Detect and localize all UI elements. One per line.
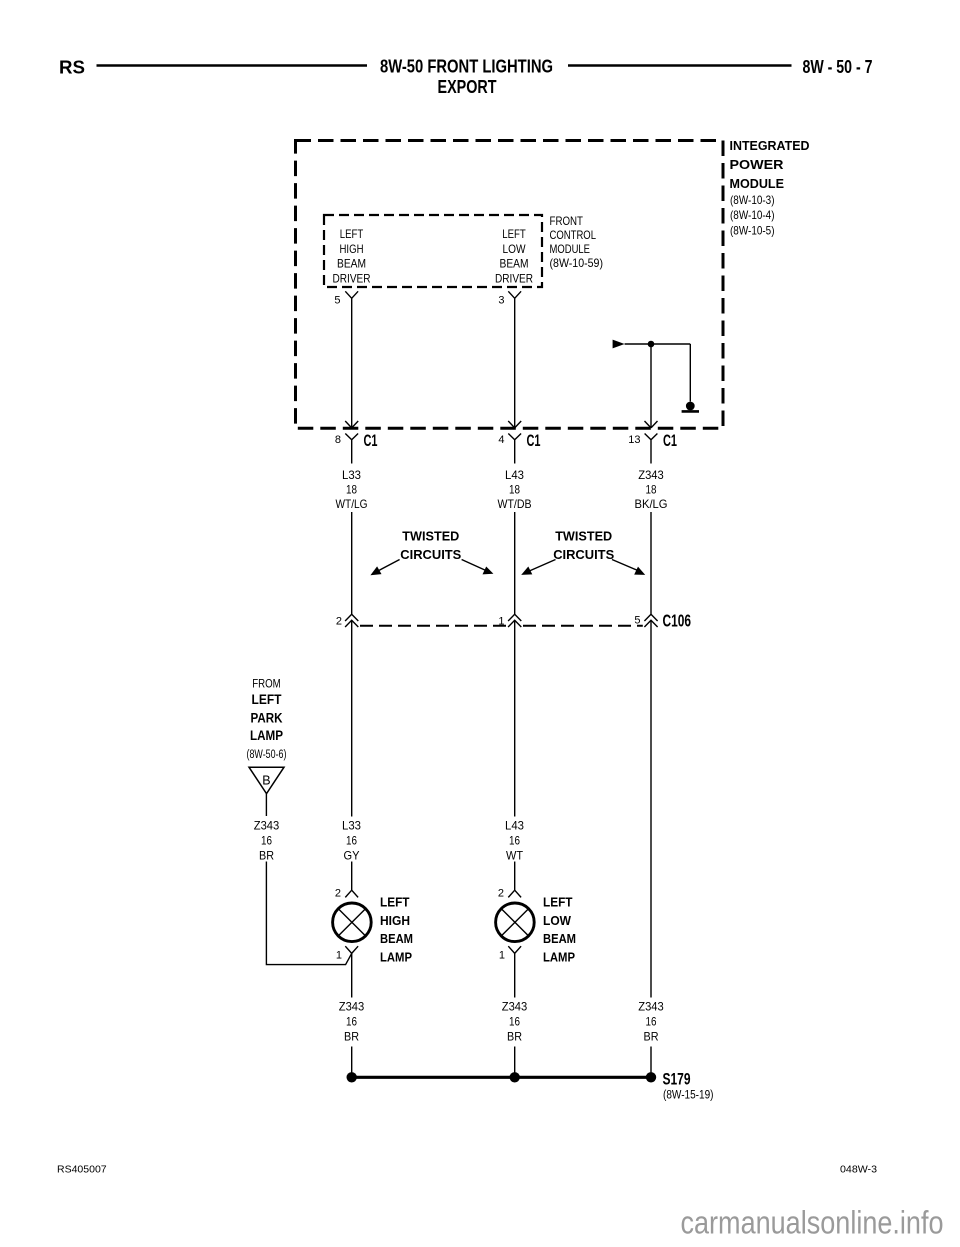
connector pin2 lamp2 <box>508 890 521 897</box>
wire W2 segment A <box>514 298 516 427</box>
svg-text:LAMP: LAMP <box>380 950 412 965</box>
svg-text:TWISTED: TWISTED <box>555 528 612 543</box>
svg-text:LEFT: LEFT <box>502 227 526 241</box>
svg-text:TWISTED: TWISTED <box>402 528 459 543</box>
integrated power module box (dashed) <box>296 141 724 429</box>
wire W2 segment E <box>514 1047 516 1078</box>
wire from triangle stub <box>265 794 267 816</box>
connector C106 chevrons W2 <box>508 614 521 627</box>
svg-text:BK/LG: BK/LG <box>635 497 668 511</box>
svg-text:L43: L43 <box>505 819 524 833</box>
svg-text:WT: WT <box>506 849 524 863</box>
svg-text:1: 1 <box>499 950 505 962</box>
svg-text:(8W-10-5): (8W-10-5) <box>730 224 775 238</box>
svg-text:S179: S179 <box>663 1070 691 1088</box>
splice S179 bus <box>352 1076 651 1079</box>
svg-text:3: 3 <box>498 295 504 307</box>
feed triangle inside IPM <box>613 340 625 349</box>
svg-text:16: 16 <box>261 834 272 848</box>
splice dot W1 <box>347 1072 357 1082</box>
svg-text:BEAM: BEAM <box>337 257 366 271</box>
svg-text:16: 16 <box>346 1015 357 1029</box>
lamp L1 circle <box>333 903 372 942</box>
connector pin2 lamp1 <box>345 890 358 897</box>
svg-text:16: 16 <box>646 1015 657 1029</box>
svg-text:BR: BR <box>507 1030 522 1044</box>
svg-text:Z343: Z343 <box>502 1000 528 1014</box>
svg-text:LEFT: LEFT <box>380 895 410 910</box>
svg-text:18: 18 <box>509 483 520 497</box>
arrow right-down <box>612 560 639 572</box>
arrowhead W1 at C1 <box>345 421 358 428</box>
arrowhead W3 at C1 <box>645 421 658 428</box>
svg-text:CIRCUITS: CIRCUITS <box>553 547 614 562</box>
svg-text:18: 18 <box>646 483 657 497</box>
header rule left <box>97 64 368 67</box>
connector pin1 lamp2 <box>508 946 521 997</box>
arrow left-down <box>527 560 556 573</box>
off-page connector triangle B <box>249 767 284 794</box>
svg-text:DRIVER: DRIVER <box>495 271 533 285</box>
wire W1 segment C <box>351 620 353 816</box>
svg-text:8W - 50 - 7: 8W - 50 - 7 <box>803 57 873 77</box>
arrowhead W2 at C1 <box>508 421 521 428</box>
svg-text:16: 16 <box>509 834 520 848</box>
connector C1 W3 <box>645 434 658 464</box>
arrow left-down <box>376 560 400 573</box>
connector C106 chevrons W1 <box>345 614 358 627</box>
lamp L1 X <box>338 909 365 936</box>
svg-text:BEAM: BEAM <box>380 931 413 946</box>
svg-text:8W-50 FRONT LIGHTING: 8W-50 FRONT LIGHTING <box>380 56 553 77</box>
svg-text:BR: BR <box>344 1030 359 1044</box>
svg-text:L33: L33 <box>342 819 361 833</box>
svg-text:LEFT: LEFT <box>543 895 573 910</box>
arrow right-down <box>462 560 487 572</box>
svg-text:8: 8 <box>335 434 341 446</box>
svg-text:EXPORT: EXPORT <box>438 76 498 97</box>
svg-text:1: 1 <box>336 950 342 962</box>
svg-text:LAMP: LAMP <box>250 728 283 743</box>
svg-text:PARK: PARK <box>251 711 283 726</box>
svg-text:MODULE: MODULE <box>550 242 591 256</box>
wire W3 segment C <box>650 620 652 997</box>
svg-text:B: B <box>262 774 270 788</box>
connector C1 W1 <box>345 434 358 464</box>
svg-text:Z343: Z343 <box>638 468 664 482</box>
svg-text:C1: C1 <box>663 432 677 450</box>
svg-text:LEFT: LEFT <box>252 692 283 707</box>
svg-text:Z343: Z343 <box>254 819 280 833</box>
svg-text:5: 5 <box>634 615 640 627</box>
svg-text:(8W-50-6): (8W-50-6) <box>247 749 287 761</box>
wire W3 segment B <box>650 512 652 614</box>
connector pin1 lamp1 <box>345 946 358 997</box>
svg-text:L33: L33 <box>342 468 361 482</box>
svg-text:GY: GY <box>344 849 360 863</box>
svg-text:16: 16 <box>346 834 357 848</box>
ground symbol inside IPM <box>686 402 695 411</box>
svg-text:LOW: LOW <box>543 913 572 928</box>
wire W1 segment A <box>351 298 353 427</box>
connector C106 chevrons W3 <box>644 614 657 627</box>
svg-text:MODULE: MODULE <box>730 177 785 191</box>
svg-text:(8W-10-59): (8W-10-59) <box>550 256 604 270</box>
svg-text:16: 16 <box>509 1015 520 1029</box>
svg-text:BEAM: BEAM <box>500 257 529 271</box>
wire W3 segment A <box>650 344 652 428</box>
header rule right <box>568 64 792 67</box>
svg-text:5: 5 <box>334 295 340 307</box>
connector C1 W2 <box>508 434 521 464</box>
wire W2 segment B <box>514 512 516 614</box>
park lamp wire down and over <box>266 862 351 965</box>
svg-text:RS: RS <box>59 57 85 78</box>
wire W1 segment E <box>351 1047 353 1078</box>
svg-text:BR: BR <box>259 849 274 863</box>
svg-text:1: 1 <box>498 616 504 628</box>
splice dot W3 <box>646 1072 656 1082</box>
wire from triangle <box>625 344 691 402</box>
svg-text:DRIVER: DRIVER <box>333 271 371 285</box>
splice dot W2 <box>510 1072 520 1082</box>
svg-text:2: 2 <box>498 888 504 900</box>
svg-text:WT/DB: WT/DB <box>498 497 532 511</box>
svg-text:LAMP: LAMP <box>543 950 575 965</box>
svg-text:carmanualsonline.info: carmanualsonline.info <box>681 1205 944 1241</box>
svg-text:HIGH: HIGH <box>340 242 364 256</box>
svg-text:Z343: Z343 <box>638 1000 664 1014</box>
svg-text:RS405007: RS405007 <box>57 1164 107 1176</box>
connector C106 dashed line <box>360 625 507 627</box>
lamp L2 X <box>501 909 528 936</box>
wire W2 segment C <box>514 620 516 816</box>
svg-text:CIRCUITS: CIRCUITS <box>400 547 461 562</box>
svg-text:HIGH: HIGH <box>380 913 410 928</box>
svg-text:2: 2 <box>335 888 341 900</box>
svg-text:(8W-15-19): (8W-15-19) <box>663 1090 714 1102</box>
svg-text:INTEGRATED: INTEGRATED <box>730 139 810 153</box>
svg-text:4: 4 <box>498 434 504 446</box>
svg-text:C1: C1 <box>527 432 541 450</box>
svg-text:C1: C1 <box>364 432 378 450</box>
svg-text:L43: L43 <box>505 468 524 482</box>
wire W3 segment E <box>650 1047 652 1078</box>
svg-text:Z343: Z343 <box>339 1000 365 1014</box>
wire W2 segment D <box>514 862 516 891</box>
connector Y pin 3 <box>508 291 521 298</box>
svg-text:13: 13 <box>628 434 640 446</box>
front control module box (dashed) <box>324 215 542 287</box>
svg-text:BR: BR <box>644 1030 659 1044</box>
svg-text:CONTROL: CONTROL <box>550 228 597 242</box>
svg-text:LOW: LOW <box>503 242 527 256</box>
svg-text:WT/LG: WT/LG <box>336 497 368 511</box>
wire W1 segment B <box>351 512 353 614</box>
junction dot <box>648 341 655 348</box>
svg-text:C106: C106 <box>663 610 692 630</box>
svg-text:FRONT: FRONT <box>550 214 584 228</box>
svg-text:BEAM: BEAM <box>543 931 576 946</box>
svg-text:POWER: POWER <box>730 158 784 172</box>
svg-text:(8W-10-3): (8W-10-3) <box>730 193 775 207</box>
lamp L2 circle <box>496 903 535 942</box>
svg-text:FROM: FROM <box>252 677 281 691</box>
svg-text:048W-3: 048W-3 <box>840 1164 877 1176</box>
svg-text:LEFT: LEFT <box>340 227 364 241</box>
wire W1 segment D <box>351 862 353 891</box>
svg-text:18: 18 <box>346 483 357 497</box>
connector Y pin 5 <box>345 291 358 298</box>
svg-text:(8W-10-4): (8W-10-4) <box>730 208 775 222</box>
svg-text:2: 2 <box>336 616 342 628</box>
